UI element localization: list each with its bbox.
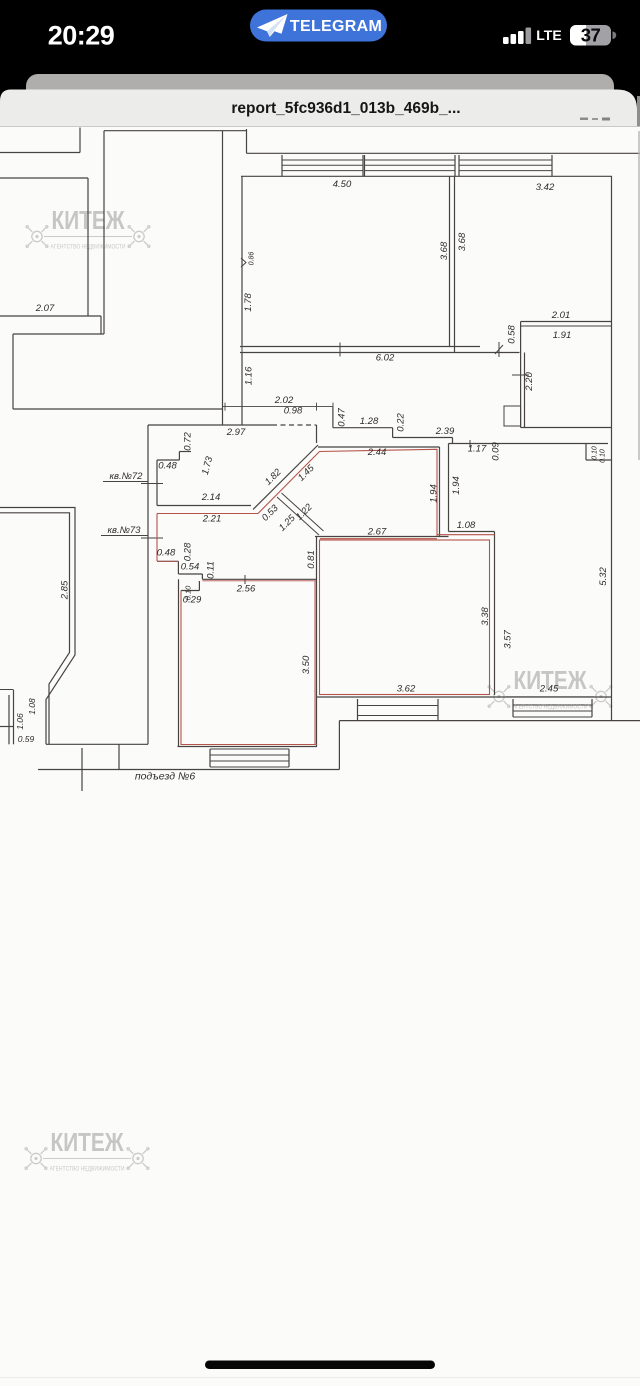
corridor walls kv72 (2.14/2.21) [157,505,251,507]
svg-text:кв.№73: кв.№73 [108,525,142,536]
hall red outline [258,449,437,536]
wall 1.08 [449,531,495,533]
svg-text:2.44: 2.44 [367,447,387,458]
svg-text:кв.№72: кв.№72 [110,471,144,482]
room 1.91 inner top line [521,325,612,327]
svg-text:1.08: 1.08 [27,698,37,715]
right facade wall [611,176,613,720]
closet notch [198,581,200,591]
svg-text:1.17: 1.17 [468,444,487,455]
wall top-left vertical [79,128,81,153]
svg-text:2.67: 2.67 [367,527,387,538]
svg-text:20:29: 20:29 [48,21,115,51]
svg-text:0.86: 0.86 [249,252,256,266]
room 2.01 top wall [521,321,612,323]
svg-text:37: 37 [581,25,601,46]
svg-text:3.38: 3.38 [480,607,491,626]
wall between rooms 4.50 and 3.42 (double) [449,176,451,346]
dimension line 2.02/0.98 [223,406,334,408]
hall diagonal wall black [253,445,318,510]
hall door diagonal (double) [277,497,319,535]
left room (2.07) walls [0,177,88,179]
svg-text:1.08: 1.08 [457,520,476,531]
step wall at x=339 [338,721,340,770]
hall top wall black [318,446,440,448]
svg-text:0.72: 0.72 [183,432,194,451]
svg-text:2.85: 2.85 [60,580,71,600]
upper wall of room 5.32 with notch [449,443,609,445]
red inner edge of room A right wall [314,581,316,745]
hall bottom wall black [315,536,449,538]
svg-text:1.94: 1.94 [429,484,440,503]
window WB2 below room C [512,699,514,717]
svg-text:TELEGRAM: TELEGRAM [290,18,382,35]
svg-text:0.98: 0.98 [284,406,303,417]
svg-text:3.42: 3.42 [536,182,555,193]
svg-text:0.11: 0.11 [206,561,217,579]
north facade wall [246,129,248,153]
svg-text:3.62: 3.62 [397,684,416,695]
svg-text:report_5fc936d1_013b_469b_...: report_5fc936d1_013b_469b_... [231,100,460,117]
photo right edge line [638,131,640,460]
closet steps red+black [157,560,178,562]
svg-text:0.22: 0.22 [396,413,407,432]
svg-text:2.45: 2.45 [539,684,559,695]
door leaf rectangle near room 2.20 [504,406,521,426]
red wall to room 5.32 [437,534,495,536]
svg-text:0.48: 0.48 [157,548,176,559]
svg-text:АГЕНТСТВО НЕДВИЖИМОСТИ: АГЕНТСТВО НЕДВИЖИМОСТИ [50,1166,125,1173]
dimension 2.20 with tick [512,374,529,376]
svg-text:0.58: 0.58 [507,325,518,344]
front sheet title bar [0,90,637,131]
cellular signal bars [503,37,509,44]
svg-text:3.57: 3.57 [503,630,514,649]
window WA below room A [209,749,211,767]
svg-text:3.50: 3.50 [301,655,312,674]
room B/C bottom wall black [317,696,612,698]
tick 2.56 [244,575,246,584]
watermark upper-left: KITEZH logo [26,226,150,248]
svg-text:0.47: 0.47 [337,408,348,427]
svg-text:КИТЕЖ: КИТЕЖ [51,1129,125,1157]
room A bottom black [178,746,318,748]
svg-text:2.07: 2.07 [35,303,55,314]
left corridor long wall [147,425,149,744]
svg-text:4.50: 4.50 [333,179,352,190]
room 1.91/2.20 walls [520,322,522,428]
kv72 entrance nook [156,460,158,506]
svg-text:0.10: 0.10 [600,449,607,463]
svg-text:LTE: LTE [536,27,561,43]
svg-text:0.29: 0.29 [183,595,202,606]
svg-text:0.28: 0.28 [183,542,194,561]
svg-text:1.78: 1.78 [243,293,254,312]
wall between A/B and hall 0.81 [316,537,318,747]
window W-c [458,155,460,176]
room A (3.50) left wall [178,579,180,746]
svg-text:6.02: 6.02 [376,353,395,364]
wall 6.02 (double) with ticks [240,346,480,348]
svg-text:3.68: 3.68 [439,241,450,260]
svg-text:2.14: 2.14 [201,492,221,503]
podezd wall pieces [46,743,148,745]
photo top-right artefacts [580,118,588,121]
svg-text:2.02: 2.02 [274,395,294,406]
room 4.50 left wall with vent mark [241,176,243,345]
svg-text:0.59: 0.59 [18,734,35,744]
wall top-left horizontal [0,152,80,154]
svg-text:0.10: 0.10 [592,446,599,460]
battery indicator 37 [570,25,611,46]
corridor top wall with door dashes [148,424,272,426]
svg-text:1.94: 1.94 [451,476,462,495]
bottom-left small walls [13,690,15,744]
room 5.32 left wall [494,532,496,696]
window WB1 below room B [357,699,359,721]
red room A bottom [181,744,318,746]
central tall room walls [104,130,247,132]
bottom hairline [0,1377,640,1379]
telegram paper-plane icon [257,14,288,37]
step wall 0.47/1.28/0.22 [332,407,334,428]
svg-text:2.01: 2.01 [551,310,571,321]
svg-text:1.06: 1.06 [15,713,25,730]
wall 1.94 left of room 5.32 [448,444,450,532]
neighbour flat outer wall [0,508,75,745]
stair hall walls below left room [13,333,104,335]
svg-text:2.21: 2.21 [202,514,222,525]
red door edge kv73 [156,514,158,562]
svg-text:1.16: 1.16 [244,366,255,385]
neighbour flat inner wall [0,513,70,745]
svg-text:0.09: 0.09 [491,442,502,461]
svg-text:1.91: 1.91 [553,330,572,341]
svg-text:2.39: 2.39 [435,426,455,437]
window W-a [281,155,283,176]
svg-text:2.97: 2.97 [226,427,246,438]
svg-text:2.20: 2.20 [524,372,535,392]
right edge shadow of sheets [637,96,640,127]
corridor wall below 6.02 [241,353,243,426]
bottom wall right section [339,720,640,722]
home indicator [205,1361,435,1370]
closet top wall 2.56 [202,578,316,580]
svg-text:0.54: 0.54 [181,562,200,573]
svg-text:подъезд №6: подъезд №6 [135,771,196,783]
svg-text:5.32: 5.32 [598,567,609,586]
title bar bottom divider [0,126,640,128]
podezd bottom wall [38,769,339,771]
notch at top-right of room 5.32 [585,444,587,461]
svg-text:1.28: 1.28 [360,416,379,427]
red room B outline [320,540,490,695]
back sheet (stacked card) [26,74,614,154]
watermark lower-left: KITEZH logo [25,1148,149,1170]
telegram pill button [250,10,387,42]
svg-text:3.68: 3.68 [457,232,468,251]
vent arrow mark [241,258,246,267]
watermark middle-right: KITEZH logo [488,686,612,708]
window W-b [364,155,366,176]
svg-text:0.48: 0.48 [158,461,177,472]
svg-text:2.56: 2.56 [236,584,256,595]
phone background (black status area) [0,0,640,127]
svg-text:0.81: 0.81 [306,550,317,569]
